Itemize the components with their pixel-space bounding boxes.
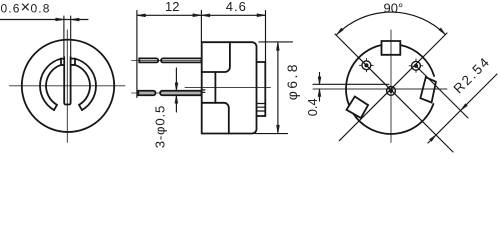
arc arrow left end [337, 28, 344, 35]
vertical center line [66, 30, 68, 142]
svg-text:12: 12 [165, 0, 179, 14]
upper-left pin hole [360, 58, 374, 71]
inner contour mid vertical [214, 72, 216, 103]
top notch rectangle [382, 41, 401, 55]
0.5 arrow down [175, 83, 178, 91]
pin 2 left segment [138, 91, 155, 95]
flange bottom [257, 115, 266, 117]
notch ledge top-left [61, 58, 64, 60]
diagonal line UL-DR through center (R2.54 reference) [335, 34, 453, 152]
ring bottom-left radial cut [54, 105, 57, 110]
pin 1 left segment [139, 58, 158, 62]
0.5 dim line lower [175, 95, 177, 112]
svg-text:φ6.8: φ6.8 [284, 62, 300, 100]
body outline [202, 42, 257, 133]
0.4 dim line vertical [319, 73, 321, 102]
notch ledge inner-left [61, 64, 64, 66]
φ6.8 arrow up [277, 42, 280, 51]
rotor flange right: top edge [257, 61, 266, 63]
pin 2 centerline [132, 92, 202, 94]
lower-left cutout (rotated rect) [347, 97, 369, 119]
svg-text:90°: 90° [384, 1, 404, 16]
screwdriver slot [64, 57, 70, 105]
ring bottom-right radial cut [79, 105, 82, 110]
body circle with top notch and side cutouts (arc segments) [400, 45, 434, 76]
pin 1 centerline [132, 59, 202, 61]
rotor ring outer arc right [75, 59, 96, 110]
0.5 dim line upper [175, 68, 177, 91]
dimension line / leader under 0.6×0.8 [0, 19, 88, 21]
flange rungs [257, 104, 266, 112]
rotor ring outer arc left [40, 59, 61, 110]
φ6.8 extension bottom [255, 133, 288, 135]
right cutout (rotated rect) [420, 77, 436, 102]
svg-text:3-φ0.5: 3-φ0.5 [153, 105, 168, 148]
φ6.8 extension top [259, 41, 293, 43]
rotor ring inner arc left [46, 65, 61, 105]
extension line x=137 [136, 11, 138, 98]
arrow at 265.5 pointing right [257, 14, 266, 17]
pin 2 stub inside body [202, 90, 205, 92]
φ6.8 arrow down [277, 125, 280, 134]
pin 2 right segment [160, 91, 201, 95]
upper-right pin hole [409, 59, 423, 72]
0.4 reference line upper [313, 83, 389, 85]
ring top notch left cut [60, 59, 62, 65]
R2.54 dimension line (perpendicular) [428, 74, 497, 143]
arrow at 137 pointing left [137, 14, 146, 17]
center pin hole [387, 87, 396, 96]
angular dimension arc [337, 12, 446, 35]
svg-text:0.6×0.8: 0.6×0.8 [1, 0, 51, 17]
svg-text:0.4: 0.4 [305, 98, 320, 116]
vertical center line [390, 30, 392, 142]
notch ledge inner-right [71, 64, 75, 66]
pin 1 right segment [161, 58, 202, 62]
diagonal through upper-right pin (parallel) [416, 66, 468, 118]
horizontal center line [10, 85, 126, 87]
extension line x=265.5 [265, 11, 267, 63]
0.5 arrow up [175, 95, 178, 103]
extension line slot right [70, 16, 72, 57]
notch ledge top-right [71, 58, 75, 60]
R2.54 arrow at inner line [430, 135, 437, 142]
ring top notch right cut [74, 59, 76, 65]
rotor flange right edge [264, 62, 266, 116]
arrows at 201.4 [193, 14, 210, 17]
horizontal center line [313, 88, 447, 90]
arc arrow right end [439, 28, 446, 35]
φ6.8 dimension line [277, 42, 279, 134]
R2.54 arrow at outer line [461, 104, 468, 111]
inner contour lower horizontal+arc+vertical [202, 103, 229, 134]
body center line [185, 86, 271, 88]
svg-text:4.6: 4.6 [226, 0, 247, 14]
diagonal line DL-UR through center [339, 33, 447, 141]
inner contour top vertical+arc [202, 42, 230, 72]
outer circle [22, 40, 114, 132]
svg-text:R2.54: R2.54 [451, 54, 494, 97]
extension line x=201.4 [200, 11, 202, 43]
arrow left of slot [56, 18, 64, 21]
arrow right of slot [71, 18, 80, 21]
dimension line 12 / 4.6 [137, 14, 266, 16]
rotor ring inner arc right [75, 65, 90, 105]
extension line slot left [63, 16, 65, 57]
0.4 arrow up [318, 89, 321, 97]
0.4 arrow down [318, 77, 321, 85]
